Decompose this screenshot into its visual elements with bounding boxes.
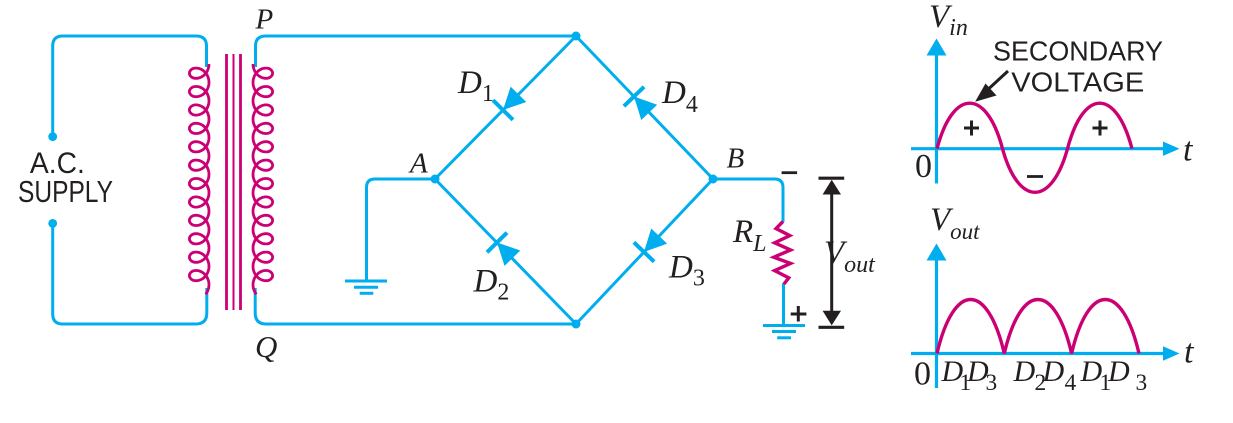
svg-text:t: t (1183, 132, 1194, 169)
node B junction (709, 175, 718, 184)
wire bridge diamond (435, 36, 713, 324)
label plus first hump (964, 121, 979, 136)
wire primary top (53, 36, 207, 137)
svg-text:SUPPLY: SUPPLY (18, 174, 113, 209)
svg-text:A: A (408, 148, 428, 180)
Vout graph x-axis (911, 346, 1180, 360)
svg-text:4: 4 (1065, 370, 1077, 396)
wire node B to load (713, 179, 783, 222)
terminal dot lower (48, 219, 57, 228)
Vin graph x-axis (911, 142, 1180, 156)
svg-text:SECONDARY: SECONDARY (993, 36, 1163, 67)
label minus trough (1027, 175, 1043, 178)
svg-text:0: 0 (914, 356, 931, 393)
wire load to ground (782, 283, 785, 324)
Vin sine wave (937, 103, 1132, 192)
Vout measurement arrow (819, 178, 845, 327)
label plus second hump (1093, 121, 1108, 136)
resistor RL (774, 222, 791, 285)
diode D3 (632, 226, 669, 263)
node top junction (572, 32, 581, 41)
diode D4 (623, 85, 660, 122)
svg-text:VOLTAGE: VOLTAGE (1011, 66, 1144, 97)
svg-text:D: D (1107, 355, 1130, 388)
wire primary bottom (53, 224, 207, 324)
transformer core (227, 54, 241, 310)
terminal dot upper (48, 132, 57, 141)
ground at node A (345, 281, 387, 293)
Vout graph y-axis (927, 244, 947, 389)
svg-text:t: t (1184, 334, 1195, 371)
wire secondary top P to bridge (256, 36, 577, 67)
svg-text:D: D (1013, 355, 1036, 388)
svg-text:0: 0 (915, 148, 932, 185)
svg-text:3: 3 (1136, 370, 1148, 396)
wire secondary bottom Q to bridge (255, 288, 576, 324)
Vin graph y-axis (927, 39, 947, 184)
diode D1 (492, 85, 529, 122)
transformer primary winding (189, 64, 209, 294)
svg-text:D: D (1042, 355, 1065, 388)
diode D2 (486, 231, 523, 268)
Vout humps (937, 300, 1139, 354)
transformer secondary winding (253, 64, 273, 294)
svg-text:P: P (255, 4, 274, 36)
label plus at load (791, 306, 807, 322)
wire node A to ground (367, 179, 436, 280)
svg-text:Q: Q (255, 329, 277, 364)
svg-text:3: 3 (986, 370, 998, 396)
annotation arrow (975, 71, 1008, 102)
node A junction (431, 175, 440, 184)
label minus at B (782, 171, 798, 174)
svg-text:B: B (727, 143, 745, 175)
node bottom junction (572, 320, 581, 329)
label D1D3 D2D4 D1D3 (941, 355, 1148, 396)
ground at load (763, 326, 805, 338)
